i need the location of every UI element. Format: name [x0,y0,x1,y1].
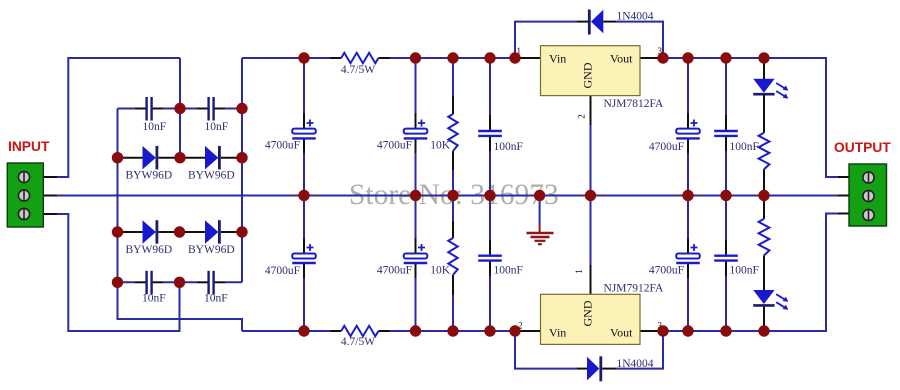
wire DC minus left column [118,109,243,332]
lead output terminal pins [838,176,849,178]
wire top cap row [118,108,135,110]
lead D3 D4 row [118,231,143,233]
wire DC plus right column [241,58,243,282]
svg-text:10K: 10K [430,140,451,152]
svg-text:100nF: 100nF [730,141,759,153]
svg-text:10nF: 10nF [142,293,166,305]
capacitor C11 100nF top left [478,130,502,132]
svg-text:BYW96D: BYW96D [126,244,173,256]
diode D1 BYW96D [143,146,156,170]
svg-text:OUTPUT: OUTPUT [834,140,891,155]
svg-text:Vin: Vin [549,326,566,340]
lead C4 [197,281,208,283]
resistor R1 4.7/5W [341,53,378,63]
wire 1N4004 top loop [515,22,577,58]
capacitor C12 100nF top right [714,130,738,132]
capacitor C8 4700uF bottom left [292,254,316,259]
lead U1 pin1 pin3 [516,57,541,59]
wire top rail right [662,58,838,177]
wire C5 column [303,58,305,113]
svg-text:GND: GND [581,300,595,326]
capacitor C1 10nF [145,97,147,121]
svg-text:4700uF: 4700uF [649,141,684,153]
lead C6 [415,113,417,129]
wire bottom rail mid [390,330,517,332]
svg-text:GND: GND [581,62,595,88]
diode D5 1N4004 top [588,10,591,35]
wire mid ground rail [57,195,838,197]
svg-text:2: 2 [577,114,587,119]
wire AC1 drop to bridge [179,58,181,158]
diode D3 BYW96D [143,220,156,244]
wire AC2 path [57,214,180,331]
svg-text:Vout: Vout [610,326,633,340]
lead LED columns [763,58,765,79]
svg-text:BYW96D: BYW96D [188,244,235,256]
wire top-left loop AC1 [57,58,180,177]
lead U2 pin2 pin3 [516,330,541,332]
LED2 bottom [753,290,774,304]
wire 10K columns [452,58,454,96]
svg-text:10K: 10K [430,265,451,277]
svg-text:NJM7812FA: NJM7812FA [604,98,665,110]
svg-text:4700uF: 4700uF [265,140,300,152]
diode D4 BYW96D [205,220,218,244]
capacitor C14 100nF bottom right [714,254,738,256]
lead input terminal pins [43,176,57,178]
svg-text:4700uF: 4700uF [265,265,300,277]
svg-text:INPUT: INPUT [8,139,50,154]
capacitor C2 10nF [207,97,209,121]
wire bottom cap columns [303,196,305,239]
svg-text:Vout: Vout [610,52,633,66]
LED1 top [753,79,774,93]
lead U1 pin2 [590,96,592,125]
svg-text:1N4004: 1N4004 [617,358,654,370]
svg-text:1N4004: 1N4004 [617,11,654,23]
capacitor C7 4700uF [676,129,700,134]
svg-text:1: 1 [574,269,584,274]
svg-text:10nF: 10nF [143,121,167,133]
lead D1 D2 row [118,157,143,159]
lead C5 [303,113,305,129]
capacitor C10 4700uF bottom right [676,254,700,259]
wire 100nF columns [489,58,491,115]
capacitor C4 10nF [207,271,209,295]
lead bottom 4700uF caps [303,238,305,254]
capacitor C9 4700uF bottom mid [404,254,428,259]
wire bottom cap row [118,281,135,283]
lead R2 [331,330,342,332]
resistor R5 LED top [759,133,770,170]
capacitor C6 4700uF [404,129,428,134]
lead 100nF caps [489,115,491,130]
svg-text:4700uF: 4700uF [377,265,412,277]
resistor R4 10K [448,238,457,275]
capacitor C5 4700uF [292,129,316,134]
resistor R6 LED bottom [759,219,770,256]
lead 10K resistors [452,96,454,114]
wire C6 column [415,58,417,113]
ground [539,196,541,225]
svg-text:4.7/5W: 4.7/5W [341,64,375,76]
lead C7 [687,113,689,129]
wire top rail mid [390,57,517,59]
wire top cap row mid [163,108,197,110]
diode D6 1N4004 bottom [587,357,599,381]
lead U2 pin1 [590,265,592,294]
svg-text:BYW96D: BYW96D [188,170,235,182]
capacitor C13 100nF bottom left [478,254,502,256]
svg-text:4.7/5W: 4.7/5W [341,336,375,348]
wire top cap row right [225,108,242,110]
wire top rail left [242,57,331,59]
capacitor C3 10nF [145,271,147,295]
wire C7 column [687,58,689,113]
lead C1 [135,108,146,110]
lead C3 [135,281,146,283]
wire bottom rail right [662,214,838,332]
svg-text:NJM7912FA: NJM7912FA [604,283,665,295]
svg-text:100nF: 100nF [494,141,523,153]
svg-text:4700uF: 4700uF [649,265,684,277]
svg-text:100nF: 100nF [494,265,523,277]
wire 1N4004 bottom loop right [616,331,663,369]
op-amp U1 NJM7812FA [541,46,641,96]
lead 1N4004 bottom [577,368,587,370]
wire bottom cap row mid [163,281,197,283]
wire 1N4004 bottom loop [515,331,577,369]
svg-text:BYW96D: BYW96D [126,170,173,182]
resistor R3 10K [448,114,457,151]
op-amp U2 NJM7912FA [541,294,641,344]
wire 1N4004 top loop right [616,22,663,58]
svg-text:10nF: 10nF [204,293,228,305]
svg-text:10nF: 10nF [205,121,229,133]
diode D2 BYW96D [205,146,218,170]
svg-text:100nF: 100nF [730,265,759,277]
lead 1N4004 top [577,21,588,23]
svg-text:4700uF: 4700uF [377,140,412,152]
wire bottom rail left [242,330,331,332]
wire bottom cap row right [225,281,242,283]
wire regulators GND column [590,125,592,265]
resistor R2 4.7/5W [341,326,378,336]
lead C2 [197,108,208,110]
lead R1 [331,57,342,59]
svg-text:Vin: Vin [549,52,566,66]
